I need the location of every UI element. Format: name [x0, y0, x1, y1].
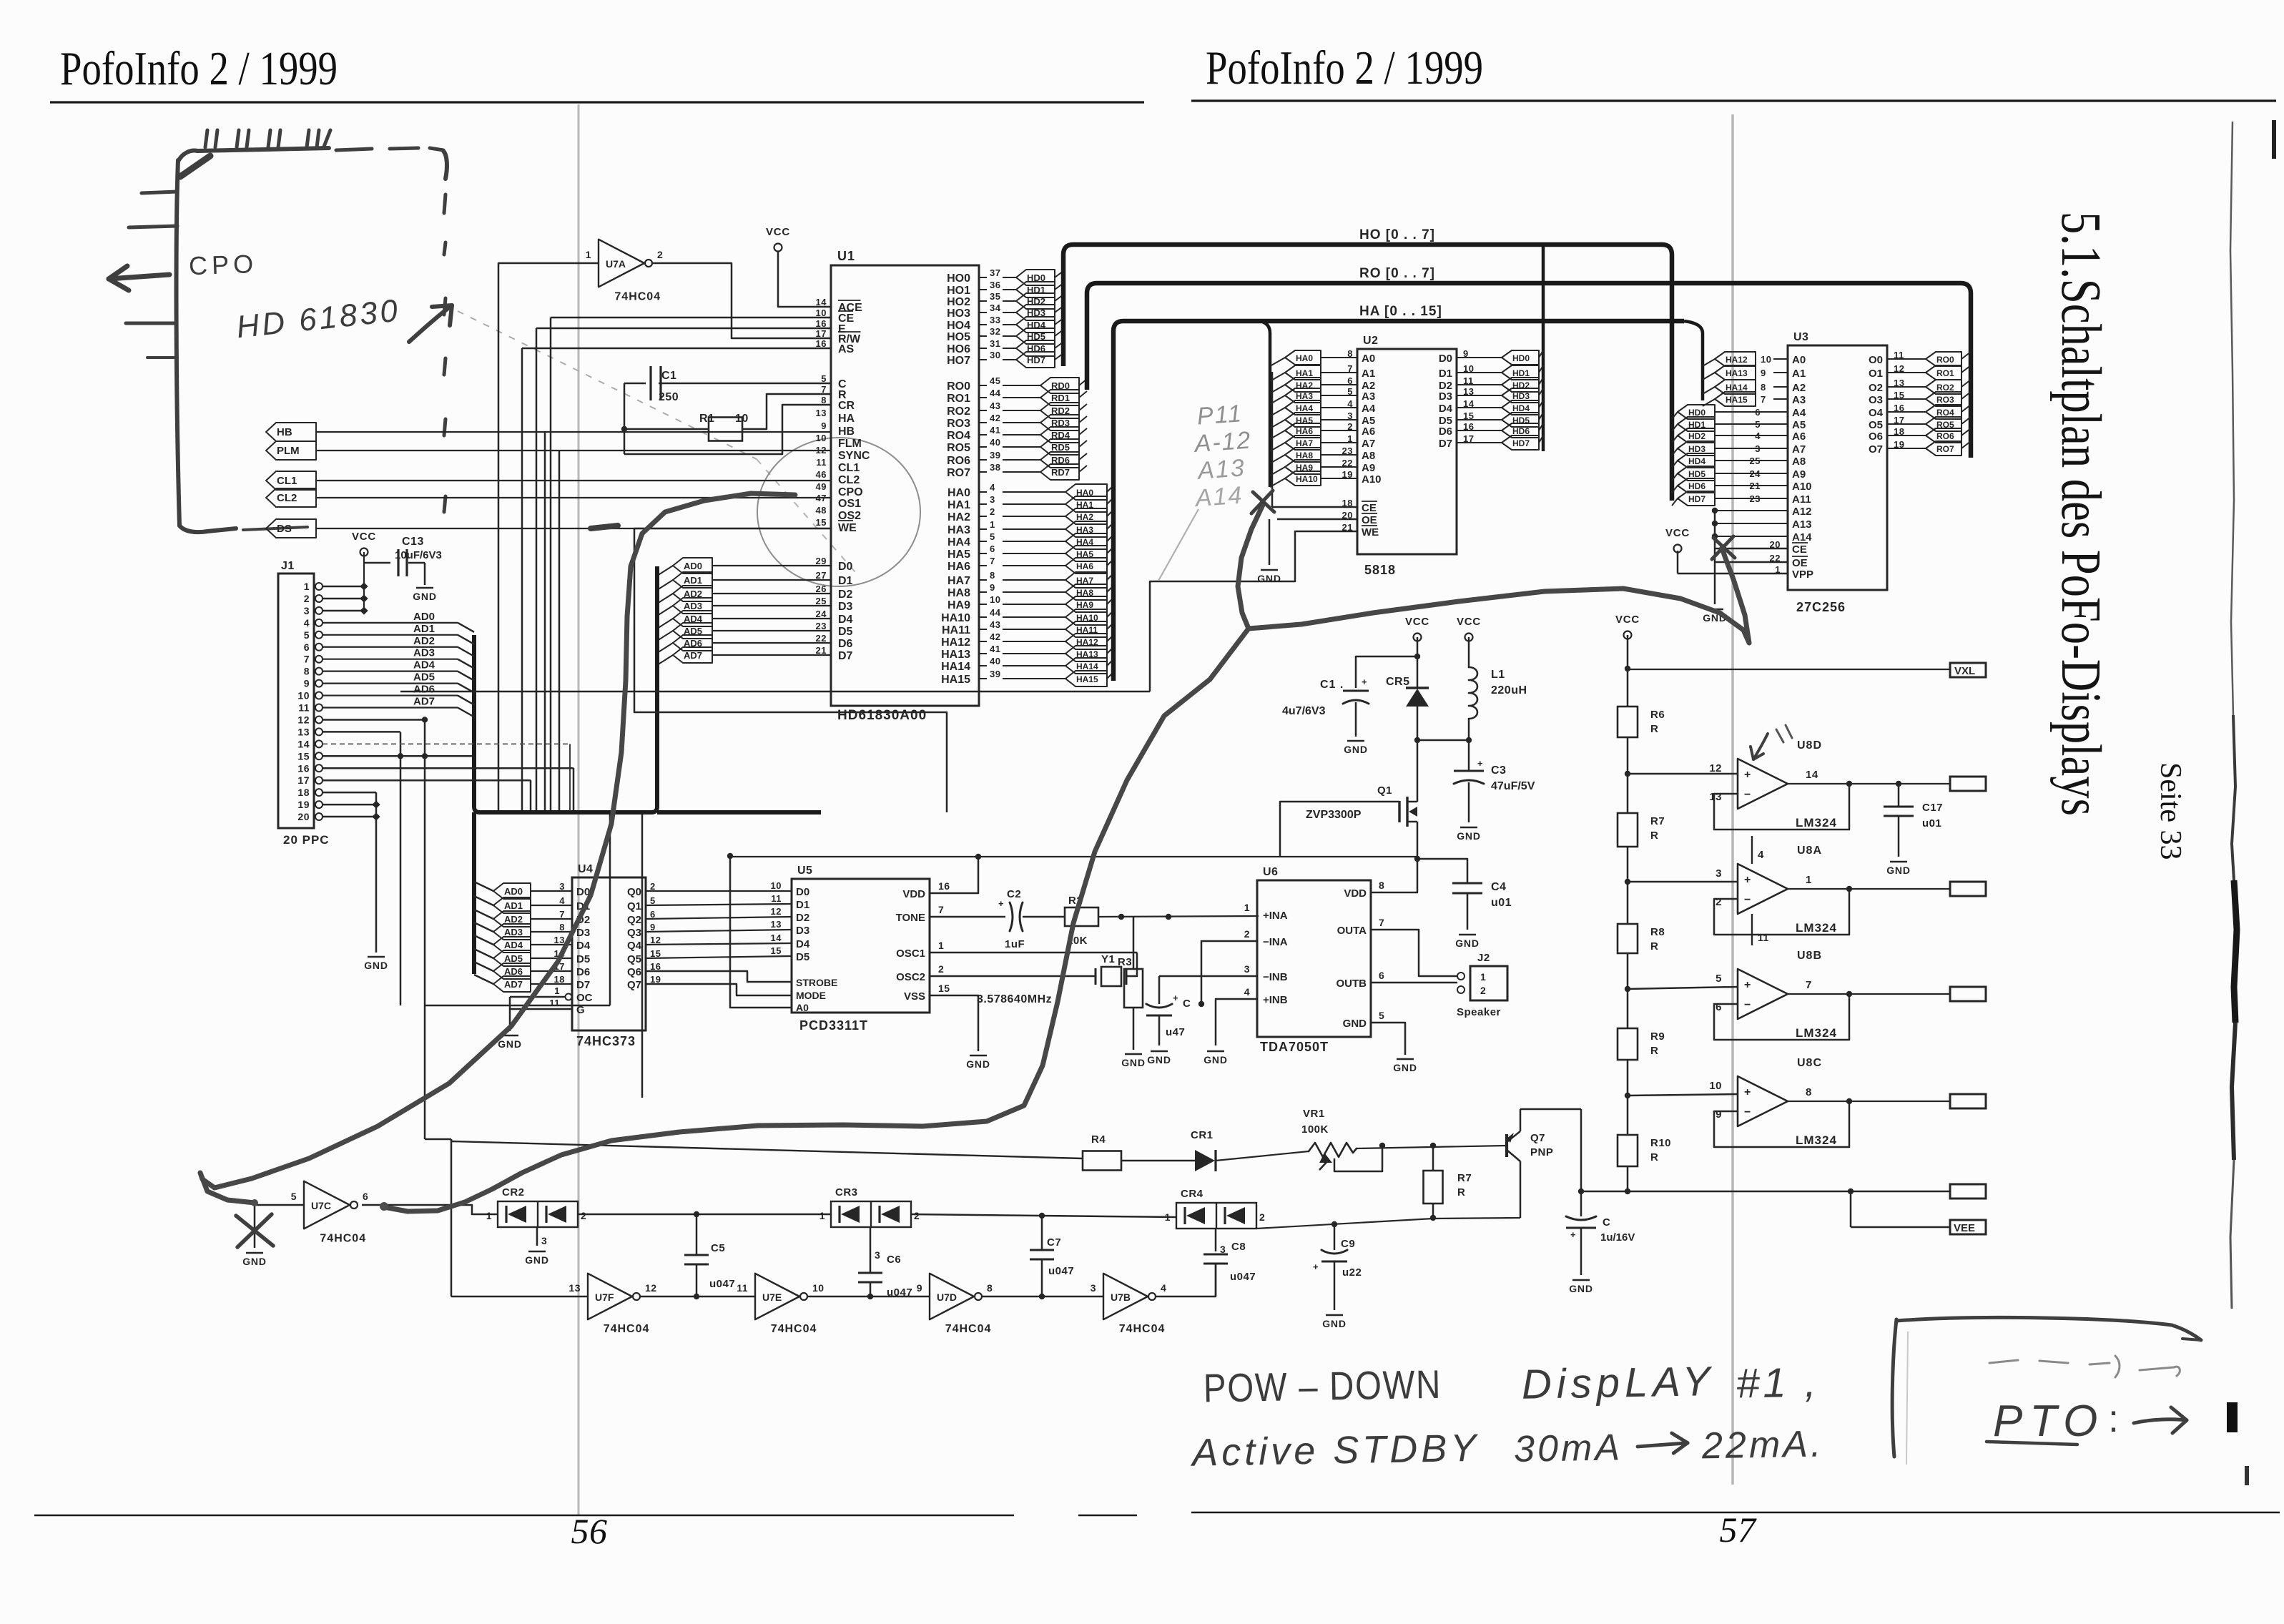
svg-text:74HC373: 74HC373 — [576, 1034, 636, 1048]
svg-text:CL1: CL1 — [277, 475, 297, 487]
svg-text:VDD: VDD — [1344, 887, 1367, 900]
svg-text:HA1: HA1 — [947, 499, 970, 511]
svg-text:HA4: HA4 — [1296, 403, 1313, 413]
svg-text:R4: R4 — [1091, 1133, 1106, 1146]
svg-text:AD0: AD0 — [684, 561, 702, 571]
wire U7D to U7B — [983, 1296, 1103, 1298]
svg-text:20: 20 — [297, 811, 310, 822]
svg-text:A3: A3 — [1792, 394, 1806, 406]
svg-text:11: 11 — [298, 702, 310, 714]
footer rule right page — [1191, 1512, 2280, 1514]
node RO5 flag U3 — [1887, 417, 1971, 431]
svg-text:#1 ,: #1 , — [1736, 1359, 1820, 1407]
resistor R10 — [1618, 1135, 1671, 1166]
svg-text:AD4: AD4 — [504, 940, 523, 950]
wire U7A output to U1 R/W — [652, 263, 831, 338]
svg-text:C8: C8 — [1231, 1241, 1246, 1253]
capacitor C5 u047 — [684, 1214, 735, 1299]
node HA12 flag U3 — [1703, 352, 1788, 366]
node HA9 flag right — [1003, 596, 1113, 612]
svg-text:HA8: HA8 — [947, 587, 970, 599]
node HA15 flag right — [1003, 671, 1113, 686]
svg-text:11: 11 — [1758, 932, 1769, 943]
wire J1 AD6 — [323, 684, 474, 705]
wire U5 VDD rail — [730, 854, 1417, 893]
svg-text:56: 56 — [571, 1511, 608, 1551]
IC U3 27C256 — [1770, 331, 1905, 614]
svg-text:A12: A12 — [1792, 506, 1812, 518]
svg-text:L1: L1 — [1491, 669, 1505, 681]
svg-text:LM324: LM324 — [1796, 921, 1837, 935]
svg-text:U7C: U7C — [311, 1200, 331, 1211]
node HA1 flag right — [1003, 496, 1113, 512]
wire return line y967 — [400, 691, 1150, 693]
node RO1 flag U3 — [1887, 365, 1971, 380]
svg-text:C2: C2 — [1007, 888, 1021, 900]
svg-text:14: 14 — [816, 297, 827, 307]
resistor R7 — [1618, 813, 1665, 847]
svg-text:AD3: AD3 — [684, 601, 702, 611]
svg-text:1: 1 — [554, 985, 560, 996]
capacitor C 1u/16V — [1566, 1191, 1635, 1294]
svg-text:5: 5 — [821, 373, 827, 384]
svg-text:29: 29 — [816, 556, 827, 566]
svg-text:D0: D0 — [838, 561, 853, 573]
svg-text:u047: u047 — [709, 1278, 735, 1290]
svg-text:14: 14 — [1806, 769, 1818, 781]
svg-text:CR4: CR4 — [1181, 1188, 1203, 1200]
svg-text:A13: A13 — [1196, 454, 1246, 485]
svg-text:10uF/6V3: 10uF/6V3 — [395, 549, 442, 561]
svg-text:6: 6 — [304, 641, 310, 653]
svg-text:7: 7 — [1379, 917, 1384, 928]
pencil leader line — [458, 311, 855, 572]
svg-text:Q4: Q4 — [627, 940, 642, 952]
svg-text:LM324: LM324 — [1796, 1133, 1837, 1147]
svg-text:PTO: PTO — [1993, 1397, 2105, 1446]
svg-text:SYNC: SYNC — [838, 450, 870, 462]
node HA14 flag right — [1003, 658, 1113, 674]
wire U1 WE frame — [634, 528, 947, 812]
node HA8 flag right — [1003, 584, 1113, 600]
IC U4 74HC373 — [549, 863, 661, 1048]
svg-text:GND: GND — [1147, 1054, 1171, 1066]
svg-text:+: + — [1477, 758, 1483, 769]
svg-text:GND: GND — [966, 1058, 990, 1070]
svg-text:2: 2 — [938, 963, 944, 975]
svg-text:9: 9 — [990, 582, 995, 593]
power VCC ladder — [1615, 614, 1640, 707]
svg-text:1: 1 — [938, 940, 944, 951]
node HD5 flag — [1003, 328, 1063, 344]
svg-text:AD3: AD3 — [504, 927, 523, 938]
scan artifact right edge — [2227, 120, 2276, 1485]
svg-text:74HC04: 74HC04 — [604, 1323, 650, 1335]
svg-text:VCC: VCC — [1405, 616, 1429, 628]
capacitor C17 u01 — [1884, 781, 1943, 876]
svg-text:HA15: HA15 — [1726, 395, 1748, 405]
svg-text:13: 13 — [1709, 791, 1722, 803]
svg-text:30mA: 30mA — [1514, 1427, 1623, 1470]
svg-text:GND: GND — [1343, 1018, 1367, 1030]
svg-text:R: R — [1650, 1151, 1658, 1163]
power VCC left — [1405, 616, 1429, 659]
node RO3 flag U3 — [1887, 392, 1971, 406]
resistor R8 — [1618, 924, 1665, 953]
connector J1 20 PPC — [278, 560, 330, 847]
svg-text:21: 21 — [816, 645, 827, 656]
svg-text:7: 7 — [1806, 979, 1812, 991]
svg-text:2: 2 — [657, 249, 663, 260]
svg-text:GND: GND — [242, 1256, 267, 1267]
node HA flag U2 A9 — [1270, 460, 1357, 476]
svg-text:Q6: Q6 — [627, 966, 641, 978]
node RD7 flag — [1003, 464, 1087, 480]
svg-text:10: 10 — [816, 307, 827, 318]
header right: PofoInfo 2 / 1999 — [1191, 41, 2276, 101]
svg-text:4: 4 — [990, 482, 995, 493]
node DS flag — [266, 519, 316, 538]
svg-text:u47: u47 — [1166, 1026, 1185, 1038]
svg-text:U7E: U7E — [762, 1291, 782, 1303]
svg-text:O6: O6 — [1869, 430, 1883, 443]
svg-text:41: 41 — [990, 644, 1000, 654]
transistor Q1 ZVP3300P — [1280, 740, 1417, 859]
svg-text:HA5: HA5 — [947, 548, 970, 561]
svg-text:CL1: CL1 — [838, 462, 860, 474]
svg-text:10: 10 — [812, 1282, 824, 1294]
wire U7C output — [362, 1205, 498, 1214]
wire J1 pin14 dashed — [323, 744, 570, 812]
svg-text:AD1: AD1 — [504, 900, 523, 911]
svg-text:AD7: AD7 — [504, 979, 523, 990]
node HB flag — [266, 423, 316, 441]
wire U3 CE — [1703, 548, 1788, 624]
svg-text:U8C: U8C — [1797, 1057, 1822, 1069]
svg-text:49: 49 — [816, 481, 827, 492]
svg-text:C1 .: C1 . — [1320, 679, 1344, 691]
svg-text:1: 1 — [1806, 874, 1812, 886]
svg-text:HA10: HA10 — [941, 612, 970, 624]
svg-text:HD3: HD3 — [1512, 391, 1530, 401]
svg-text:HO4: HO4 — [947, 320, 970, 332]
svg-text:Q1: Q1 — [1377, 784, 1392, 797]
svg-text:C9: C9 — [1341, 1238, 1355, 1250]
wire ladder segments — [1625, 737, 1738, 1194]
svg-text:Q0: Q0 — [627, 886, 641, 898]
node AD5 flag at U4 — [474, 949, 572, 966]
svg-text:1uF: 1uF — [1005, 938, 1025, 950]
svg-text:19: 19 — [297, 799, 310, 810]
wire CR4 to Q7 — [1256, 1218, 1520, 1229]
svg-text:4: 4 — [1244, 986, 1250, 998]
svg-text:3: 3 — [559, 881, 565, 892]
svg-text:47: 47 — [816, 493, 827, 503]
node CL1 flag — [266, 471, 316, 490]
svg-text:HA0: HA0 — [947, 487, 970, 499]
svg-text:RO1: RO1 — [1936, 368, 1954, 378]
svg-text:R7: R7 — [1650, 815, 1665, 827]
svg-text:OC: OC — [576, 992, 593, 1004]
svg-text:U8B: U8B — [1797, 950, 1822, 962]
svg-text:R8: R8 — [1650, 926, 1665, 938]
svg-text:15: 15 — [938, 983, 950, 994]
svg-text:U7B: U7B — [1111, 1291, 1131, 1303]
svg-text:GND: GND — [1203, 1054, 1228, 1066]
svg-text:HA6: HA6 — [1076, 561, 1093, 571]
svg-text:3: 3 — [990, 494, 995, 505]
node HD flag U2 D6 — [1457, 423, 1543, 438]
svg-text:CR: CR — [838, 400, 855, 412]
footer rule left page — [34, 1515, 1137, 1517]
svg-text:−: − — [1744, 1106, 1751, 1118]
svg-text:C3: C3 — [1491, 764, 1506, 777]
node HA14 flag U3 — [1703, 380, 1788, 394]
svg-text:u01: u01 — [1491, 897, 1512, 909]
op-amp U8A — [1714, 836, 1986, 945]
svg-text:A4: A4 — [1362, 403, 1376, 415]
svg-text:O2: O2 — [1869, 382, 1883, 394]
svg-text:2: 2 — [914, 1210, 920, 1221]
wire U7E to U7D — [808, 1296, 930, 1298]
svg-text:220uH: 220uH — [1491, 684, 1527, 697]
pencil dashes in PTO box — [1989, 1356, 2180, 1377]
node HD flag U2 D4 — [1457, 400, 1543, 415]
node HA flag U2 A2 — [1270, 378, 1357, 393]
node HD2 flag U3 — [1672, 428, 1788, 443]
svg-text:HA6: HA6 — [947, 561, 970, 573]
svg-text:VSS: VSS — [904, 990, 925, 1003]
page number 57 — [1720, 1510, 1758, 1550]
hand-drawn arrow to HD61830 — [409, 305, 452, 342]
svg-text:RO [0 . . 7]: RO [0 . . 7] — [1359, 266, 1435, 281]
node RO4 flag U3 — [1887, 405, 1971, 419]
rotated side text Seite 33 — [2154, 762, 2187, 860]
svg-text:5: 5 — [1716, 973, 1722, 985]
node HD0 flag U3 — [1672, 405, 1788, 419]
node AD1 flag at U1 — [657, 572, 831, 590]
svg-text:C5: C5 — [711, 1242, 725, 1254]
node HA flag U2 A5 — [1270, 413, 1357, 428]
svg-text:3: 3 — [875, 1249, 880, 1261]
svg-text:A4: A4 — [1792, 407, 1806, 419]
svg-text:−: − — [1744, 999, 1751, 1011]
wire U7C input to ground — [242, 1205, 304, 1267]
svg-text:Active STDBY: Active STDBY — [1190, 1427, 1480, 1475]
svg-text:TDA7050T: TDA7050T — [1260, 1040, 1329, 1054]
svg-text:OE: OE — [1362, 514, 1377, 526]
bus HO branch to U2 — [1542, 245, 1545, 451]
svg-text:27: 27 — [816, 570, 827, 581]
svg-text:D6: D6 — [838, 638, 853, 650]
svg-text:2: 2 — [1244, 928, 1250, 940]
svg-text:1: 1 — [819, 1210, 825, 1221]
svg-text:3: 3 — [304, 605, 310, 616]
svg-text:PCD3311T: PCD3311T — [799, 1018, 868, 1033]
svg-text:38: 38 — [990, 462, 1000, 473]
hand X at U7C input — [236, 1214, 273, 1247]
wire HB — [316, 431, 831, 433]
wire J1 pin13 — [323, 731, 400, 733]
wire U5 VSS to ground — [930, 995, 990, 1070]
svg-text:A14: A14 — [1792, 531, 1812, 543]
svg-text:27C256: 27C256 — [1796, 600, 1846, 614]
inverter U7E — [737, 1274, 824, 1335]
svg-text:DispLAY: DispLAY — [1521, 1358, 1715, 1408]
svg-text:17: 17 — [297, 774, 310, 786]
node RD5 flag — [1003, 439, 1087, 455]
svg-text:O7: O7 — [1869, 443, 1883, 456]
svg-text:HA: HA — [838, 413, 855, 425]
node AD7 flag at U4 — [474, 975, 572, 992]
svg-text:16: 16 — [297, 762, 310, 774]
svg-text:39: 39 — [990, 450, 1000, 461]
bus AD thick — [474, 566, 821, 974]
svg-text:CL2: CL2 — [838, 474, 860, 486]
svg-text:GND: GND — [1393, 1062, 1417, 1073]
svg-text:15: 15 — [816, 517, 827, 528]
node AD2 flag at U4 — [474, 910, 572, 927]
svg-text:HA2: HA2 — [1076, 512, 1093, 522]
wire PLM — [316, 450, 831, 451]
resistor R4 — [1083, 1133, 1195, 1171]
node HA15 flag U3 — [1703, 392, 1788, 406]
svg-text:6: 6 — [1716, 1001, 1722, 1013]
svg-text:2: 2 — [990, 506, 995, 517]
svg-text:D4: D4 — [838, 614, 853, 626]
svg-text:HA1: HA1 — [1296, 368, 1313, 378]
resistor R3 — [1118, 917, 1146, 1068]
svg-text:250: 250 — [659, 391, 679, 403]
svg-text:D3: D3 — [796, 925, 809, 937]
svg-text:RO7: RO7 — [1936, 444, 1954, 454]
svg-text:RO3: RO3 — [1936, 395, 1954, 405]
node CL2 flag — [266, 488, 316, 507]
svg-text:31: 31 — [990, 338, 1000, 349]
svg-text:A2: A2 — [1792, 382, 1806, 394]
wire C1 lower to CR pin — [624, 405, 831, 454]
svg-text:2: 2 — [1716, 896, 1722, 908]
svg-text:RD1: RD1 — [1051, 393, 1070, 403]
svg-text:5818: 5818 — [1364, 563, 1396, 577]
wire J1 AD0 — [323, 611, 474, 632]
node AD0 flag at U4 — [474, 882, 572, 899]
svg-text:35: 35 — [990, 291, 1000, 302]
node RD1 flag — [1003, 390, 1087, 405]
svg-text:+: + — [998, 898, 1004, 909]
hand X at U3 CE — [1712, 536, 1735, 559]
wire CL2 — [316, 497, 831, 498]
svg-text:C4: C4 — [1491, 881, 1506, 893]
svg-text:VEE: VEE — [1954, 1222, 1975, 1234]
IC U5 PCD3311T — [792, 865, 950, 1033]
svg-text:5.1.Schaltplan des PoFo-Displa: 5.1.Schaltplan des PoFo-Displays — [2049, 212, 2112, 816]
handwritten ACTIVE STDBY 30mA to 22mA — [1190, 1420, 1824, 1475]
node HD6 flag U3 — [1672, 478, 1788, 493]
svg-text:+: + — [1744, 979, 1751, 991]
svg-text:CL2: CL2 — [277, 492, 297, 504]
wire CR5-L1 junction — [1414, 737, 1472, 771]
svg-text:8: 8 — [304, 666, 310, 677]
svg-text:J1: J1 — [281, 560, 295, 572]
svg-text:Q5: Q5 — [627, 953, 641, 965]
wire DS — [316, 528, 831, 529]
svg-text:HA11: HA11 — [942, 624, 970, 636]
svg-text:A13: A13 — [1792, 518, 1812, 531]
svg-text:GND: GND — [525, 1254, 549, 1266]
svg-text:RO1: RO1 — [947, 393, 970, 405]
svg-text:HA15: HA15 — [1076, 674, 1098, 684]
svg-text:10: 10 — [297, 690, 310, 702]
svg-text:8: 8 — [990, 570, 995, 581]
svg-text:O4: O4 — [1869, 407, 1884, 419]
resistor R2 10K — [1065, 895, 1259, 947]
svg-text:OUTB: OUTB — [1337, 978, 1367, 990]
resistor R7 bias — [1424, 1143, 1472, 1221]
svg-text:12: 12 — [816, 445, 827, 456]
svg-text:A1: A1 — [1362, 368, 1375, 380]
svg-text:CR3: CR3 — [835, 1186, 858, 1199]
svg-text:+INA: +INA — [1263, 910, 1288, 922]
svg-text:12: 12 — [297, 714, 310, 725]
power VCC at U1 — [766, 226, 831, 307]
svg-text:CR1: CR1 — [1191, 1129, 1214, 1141]
svg-text:4: 4 — [1758, 849, 1764, 861]
svg-text:HO2: HO2 — [947, 296, 970, 308]
svg-text:HA9: HA9 — [947, 599, 970, 611]
svg-text:C13: C13 — [402, 536, 424, 548]
svg-text:D3: D3 — [576, 927, 590, 939]
svg-text:AD6: AD6 — [504, 966, 523, 977]
svg-text:A7: A7 — [1362, 438, 1375, 450]
svg-text:HD4: HD4 — [1512, 403, 1530, 413]
svg-text:9: 9 — [1716, 1108, 1722, 1121]
svg-text:R: R — [1650, 830, 1658, 842]
node HA2 flag right — [1003, 508, 1113, 524]
svg-text:D5: D5 — [796, 951, 809, 963]
svg-text:VCC: VCC — [766, 226, 790, 238]
wire U7A input — [498, 263, 599, 812]
node AD4 flag at U1 — [657, 611, 831, 629]
inductor L1 220uH — [1469, 667, 1527, 740]
svg-text:Speaker: Speaker — [1457, 1006, 1501, 1018]
bus HO[0..7] — [1063, 227, 1672, 501]
node RO7 flag U3 — [1887, 441, 1971, 456]
node AD6 flag at U1 — [657, 635, 831, 653]
svg-text:VR1: VR1 — [1303, 1108, 1325, 1120]
svg-text:22mA.: 22mA. — [1701, 1423, 1824, 1467]
svg-text:36: 36 — [990, 280, 1000, 290]
svg-text:U7F: U7F — [595, 1291, 614, 1303]
svg-text:OS1: OS1 — [838, 498, 861, 510]
svg-text:D3: D3 — [1439, 390, 1452, 403]
svg-text:8: 8 — [987, 1282, 993, 1294]
svg-text:6: 6 — [363, 1191, 368, 1202]
svg-text:FLM: FLM — [838, 438, 862, 450]
svg-text:C: C — [1183, 998, 1191, 1010]
svg-text:HD7: HD7 — [1688, 494, 1705, 504]
svg-text:7: 7 — [1761, 394, 1766, 405]
svg-text:4: 4 — [304, 617, 310, 629]
svg-text:HD61830A00: HD61830A00 — [837, 708, 927, 723]
svg-text:A10: A10 — [1792, 481, 1812, 493]
svg-text:RO0: RO0 — [947, 380, 970, 393]
svg-text:44: 44 — [990, 607, 1001, 618]
svg-text:VXL: VXL — [1954, 665, 1975, 677]
svg-text:R3: R3 — [1118, 956, 1132, 968]
resistor R9 — [1618, 1028, 1665, 1060]
svg-text:30: 30 — [990, 350, 1000, 360]
